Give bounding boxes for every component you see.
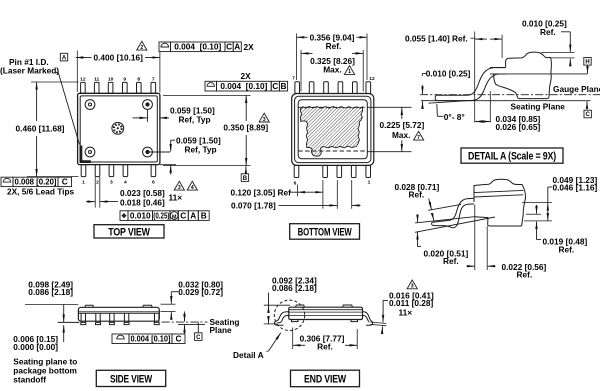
svg-text:Seating Plane: Seating Plane bbox=[511, 101, 566, 111]
bottom view package outer outline bbox=[292, 94, 374, 166]
svg-text:C: C bbox=[586, 112, 591, 118]
svg-text:Ref.: Ref. bbox=[326, 41, 342, 51]
lead-exit detail long slant line lower bbox=[415, 217, 495, 232]
svg-text:Max.: Max. bbox=[323, 65, 341, 75]
svg-text:BOTTOM VIEW: BOTTOM VIEW bbox=[298, 226, 353, 238]
svg-text:7: 7 bbox=[152, 76, 155, 82]
feature control frame 0.004 [0.10] C A bbox=[159, 42, 171, 52]
svg-text:Max.: Max. bbox=[392, 130, 410, 140]
svg-text:B: B bbox=[243, 176, 248, 182]
svg-text:8: 8 bbox=[137, 76, 140, 82]
end view left gull-wing lead bbox=[274, 312, 288, 326]
svg-text:A: A bbox=[234, 42, 240, 52]
top view center gear mark bbox=[112, 122, 124, 134]
feature control frame 0.004 [0.10] C side view bbox=[112, 334, 129, 344]
dimension 0.059 [1.50] Ref Typ (bottom-right weld to edge) bbox=[148, 151, 170, 153]
datum C box with leader bbox=[584, 110, 591, 118]
svg-text:0.070 [1.78]: 0.070 [1.78] bbox=[231, 201, 276, 211]
lead-exit detail body outline bbox=[474, 179, 526, 226]
svg-text:6: 6 bbox=[294, 180, 297, 186]
lead-exit detail lead-top extension slant bbox=[428, 204, 461, 210]
svg-text:0.004 [0.10]: 0.004 [0.10] bbox=[220, 81, 267, 91]
dimension 0.022 [0.56] Ref bbox=[474, 205, 476, 271]
svg-text:0°- 8°: 0°- 8° bbox=[444, 112, 465, 122]
svg-text:10: 10 bbox=[108, 76, 114, 82]
datum H box with leader bbox=[584, 58, 591, 66]
dimension 0.049/0.046 bbox=[547, 203, 549, 221]
side view lid seam lines bbox=[78, 311, 159, 313]
detail A pedestal bottom bbox=[518, 97, 549, 99]
top view corner weld circle bottom-right bbox=[143, 147, 153, 157]
svg-text:9: 9 bbox=[123, 76, 126, 82]
svg-text:4: 4 bbox=[191, 185, 194, 191]
detail A seal ring line bbox=[490, 73, 588, 75]
side view seating plane centerline bbox=[162, 321, 208, 323]
svg-text:3: 3 bbox=[263, 117, 266, 123]
svg-text:0.004 [0.10]: 0.004 [0.10] bbox=[131, 333, 171, 343]
svg-text:C: C bbox=[180, 210, 186, 220]
svg-text:Ref, Typ: Ref, Typ bbox=[185, 144, 217, 154]
dimension 0.120 [3.05] Ref bbox=[297, 185, 299, 197]
svg-text:SIDE VIEW: SIDE VIEW bbox=[110, 373, 153, 385]
svg-text:2X: 2X bbox=[241, 71, 252, 81]
svg-text:1: 1 bbox=[368, 180, 371, 186]
svg-text:B: B bbox=[201, 210, 207, 220]
leader to pin 1 mark bbox=[55, 72, 58, 74]
DETAIL A label bbox=[461, 148, 563, 163]
svg-text:6: 6 bbox=[152, 179, 155, 185]
bottom view epoxy/die hatched blob bbox=[300, 106, 362, 156]
datum B box bbox=[245, 166, 247, 174]
SIDE VIEW label bbox=[96, 370, 165, 386]
dimension 0.356 [9.04] Ref lead span bbox=[296, 34, 298, 81]
svg-text:Gauge Plane: Gauge Plane bbox=[553, 84, 600, 94]
svg-text:C: C bbox=[176, 333, 182, 343]
feature control frame position 0.010 (0.25) M C A B bbox=[120, 211, 128, 221]
0-8 degree angle text and leader bbox=[437, 115, 443, 117]
svg-text:3: 3 bbox=[411, 284, 414, 290]
detail A lead bend inner bbox=[472, 74, 506, 101]
svg-text:C: C bbox=[196, 335, 201, 341]
svg-text:0.000 [0.00]: 0.000 [0.00] bbox=[13, 342, 58, 352]
flag note 4 triangle at 11x bbox=[187, 181, 197, 190]
lead-exit detail lead S-bend upper (foot top to body) bbox=[433, 198, 474, 222]
bottom view leads 6,4,3,2,1 (bottom row) bbox=[294, 165, 299, 177]
bottom view dashed die-zone line upper bbox=[298, 106, 367, 108]
svg-text:0.400 [10.16]: 0.400 [10.16] bbox=[94, 53, 144, 63]
svg-text:A: A bbox=[62, 55, 67, 61]
svg-text:(Laser Marked): (Laser Marked) bbox=[0, 66, 59, 76]
svg-text:C: C bbox=[226, 42, 232, 52]
dimension 0.020 [0.51] Ref bbox=[417, 216, 419, 222]
svg-text:0.010 [0.25]: 0.010 [0.25] bbox=[426, 69, 471, 79]
end view foot extension slants bbox=[370, 322, 386, 324]
top view corner weld circle top-right bbox=[143, 100, 153, 110]
lead-exit detail body bottom and step bbox=[475, 217, 522, 226]
svg-text:3: 3 bbox=[178, 185, 181, 191]
flag note 3 triangle at 0.350 bbox=[259, 113, 269, 122]
svg-text:2X: 2X bbox=[244, 42, 255, 52]
svg-text:0.008 [0.20]: 0.008 [0.20] bbox=[15, 177, 57, 187]
lead-exit detail right ext lines bbox=[522, 202, 552, 204]
svg-text:H: H bbox=[585, 60, 589, 66]
svg-text:7: 7 bbox=[292, 76, 295, 82]
top view leads 12-7 (top row) bbox=[81, 82, 86, 93]
dimension 0.350 [8.89] body height bbox=[163, 94, 251, 96]
svg-text:11×: 11× bbox=[169, 193, 183, 203]
end view bottom tab left bbox=[292, 320, 299, 322]
detail A 0-8 degree slant line bbox=[429, 100, 475, 103]
svg-text:0.018 [0.46]: 0.018 [0.46] bbox=[120, 197, 165, 207]
svg-text:DETAIL A (Scale = 9X): DETAIL A (Scale = 9X) bbox=[468, 151, 556, 163]
end view bottom tab right bbox=[351, 320, 358, 322]
svg-text:11: 11 bbox=[94, 76, 99, 82]
dimension 0.460 [11.68] overall height bbox=[31, 81, 79, 83]
pin 1 I.D. corner mark (laser marked L) bbox=[81, 146, 91, 162]
svg-text:0.460 [11.68]: 0.460 [11.68] bbox=[16, 124, 65, 134]
detail A seating plane line bbox=[421, 100, 591, 102]
svg-text:11×: 11× bbox=[399, 307, 413, 317]
svg-text:3: 3 bbox=[110, 179, 113, 185]
svg-text:0.046 [1.16]: 0.046 [1.16] bbox=[553, 183, 598, 193]
svg-text:1: 1 bbox=[82, 179, 85, 185]
svg-text:0.120 [3.05] Ref: 0.120 [3.05] Ref bbox=[231, 188, 292, 198]
svg-text:12: 12 bbox=[369, 76, 375, 82]
svg-text:Ref.: Ref. bbox=[559, 245, 575, 255]
svg-text:7: 7 bbox=[417, 135, 420, 141]
svg-text:Ref.: Ref. bbox=[317, 341, 333, 351]
svg-text:0.350 [8.89]: 0.350 [8.89] bbox=[223, 122, 268, 132]
svg-text:C: C bbox=[272, 81, 278, 91]
end view lid bump right bbox=[343, 305, 353, 307]
end view interior lines bbox=[289, 309, 363, 311]
detail A dashed circle bbox=[274, 300, 304, 330]
flag note 2 triangle bbox=[137, 41, 147, 50]
datum C box side view bbox=[197, 322, 199, 332]
top view package lid inner outline bbox=[80, 96, 157, 162]
svg-text:Detail A: Detail A bbox=[233, 350, 264, 360]
dimension 0.070 [1.78] bbox=[336, 180, 338, 209]
seating coplanarity arrows bbox=[184, 312, 186, 322]
side view lid bump left bbox=[85, 305, 94, 307]
svg-text:2X, 5/6 Lead Tips: 2X, 5/6 Lead Tips bbox=[7, 187, 75, 197]
svg-text:TOP VIEW: TOP VIEW bbox=[108, 226, 150, 238]
svg-text:(0.25): (0.25) bbox=[153, 210, 169, 220]
flag note 3 triangle at 11x bbox=[174, 181, 184, 190]
svg-text:12: 12 bbox=[80, 76, 86, 82]
svg-text:0.010: 0.010 bbox=[130, 210, 151, 220]
END VIEW label bbox=[291, 370, 360, 387]
dimension 0.055 [1.40] Ref bbox=[474, 32, 476, 123]
svg-text:Ref.: Ref. bbox=[517, 270, 533, 280]
svg-text:Ref.: Ref. bbox=[409, 190, 425, 200]
bottom view leads 7-12 (top row) bbox=[295, 82, 300, 94]
flag note 7 triangle at 0.225 bbox=[414, 131, 424, 140]
top view leads 1,2,3,4,6 (bottom row) bbox=[81, 165, 86, 177]
end view right gull-wing lead bbox=[363, 312, 373, 325]
side view body outline bbox=[78, 307, 159, 321]
svg-text:1: 1 bbox=[348, 69, 351, 75]
top view package body outer outline bbox=[78, 93, 160, 164]
svg-text:END VIEW: END VIEW bbox=[304, 373, 347, 385]
lead-exit detail foot tip bbox=[432, 222, 434, 225]
dimension 0.034/0.026 foot length bbox=[489, 91, 491, 123]
svg-text:M: M bbox=[172, 214, 177, 220]
BOTTOM VIEW label bbox=[290, 224, 360, 240]
dimension 0.306 [7.77] Ref bbox=[292, 328, 294, 350]
svg-text:0.023 [0.58]: 0.023 [0.58] bbox=[120, 188, 165, 198]
dimension 0.325 [8.26] Max body width bbox=[300, 50, 302, 92]
bottom view dashed die-zone line lower bbox=[298, 150, 367, 152]
svg-text:0.055 [1.40] Ref.: 0.055 [1.40] Ref. bbox=[405, 34, 468, 44]
TOP VIEW label bbox=[94, 225, 164, 238]
bottom view cavity outline bbox=[298, 100, 367, 159]
detail A body outline bbox=[506, 52, 552, 97]
lead-exit detail seal lines bbox=[474, 190, 523, 192]
svg-text:C: C bbox=[62, 177, 68, 187]
flag note 1 triangle at 0.325 bbox=[344, 66, 354, 75]
svg-text:Ref, Typ: Ref, Typ bbox=[179, 115, 211, 125]
detail A body lower-left contour bbox=[494, 74, 518, 97]
feature control frame 0.008 [0.20] C bbox=[1, 177, 13, 186]
flag note 3 triangle end view bbox=[407, 280, 417, 289]
dimension 0.059 [1.50] Ref Typ (top-right weld to edge) bbox=[147, 110, 149, 122]
dimension 0.098/0.086 package height bbox=[25, 304, 78, 306]
dimension 0.225 [5.72] Max die zone bbox=[367, 106, 411, 108]
detail A lid bump ext lines bbox=[541, 51, 574, 53]
svg-text:2: 2 bbox=[96, 179, 99, 185]
svg-text:A: A bbox=[190, 210, 196, 220]
detail A lead top short line bbox=[490, 67, 506, 69]
lead-exit detail lead S-bend lower (heel to body) bbox=[434, 204, 474, 228]
detail A lead foot tip bbox=[435, 95, 471, 100]
svg-text:Plane: Plane bbox=[210, 325, 233, 335]
dimension 0.400 [10.16] top width bbox=[76, 51, 78, 93]
datum A box bbox=[60, 53, 67, 61]
dimension 0.023/0.018 lead width bbox=[94, 177, 96, 208]
end view body outline bbox=[289, 307, 363, 319]
svg-text:0.004 [0.10]: 0.004 [0.10] bbox=[174, 42, 221, 52]
lead-exit detail long slant line upper bbox=[415, 217, 475, 223]
svg-text:4: 4 bbox=[124, 179, 127, 185]
svg-text:0.029 [0.72]: 0.029 [0.72] bbox=[178, 287, 223, 297]
svg-text:B: B bbox=[281, 81, 287, 91]
bottom view package middle outline bbox=[295, 96, 371, 162]
top view corner weld circle top-left bbox=[85, 100, 95, 110]
side view lid bump right bbox=[143, 305, 153, 307]
side view leads seen from side bbox=[81, 313, 85, 322]
dimension 0.019 [0.48] Ref bbox=[536, 205, 538, 214]
top view corner weld circle bottom-left bbox=[85, 147, 95, 157]
dimension 0.006/0.000 standoff bbox=[63, 325, 65, 342]
svg-text:Ref.: Ref. bbox=[540, 27, 556, 37]
svg-text:Ref.: Ref. bbox=[443, 256, 459, 266]
svg-text:0.225 [5.72]: 0.225 [5.72] bbox=[380, 120, 425, 130]
svg-text:2: 2 bbox=[140, 45, 143, 51]
svg-text:standoff: standoff bbox=[13, 375, 46, 385]
svg-text:0.026 [0.65]: 0.026 [0.65] bbox=[496, 122, 541, 132]
detail A gauge plane centerline bbox=[420, 94, 600, 96]
detail A lead foot and bend outer bbox=[437, 68, 505, 96]
svg-text:0.086 [2.18]: 0.086 [2.18] bbox=[28, 287, 73, 297]
end view lid bump left bbox=[296, 305, 305, 307]
svg-text:0.086 [2.18]: 0.086 [2.18] bbox=[272, 283, 317, 293]
